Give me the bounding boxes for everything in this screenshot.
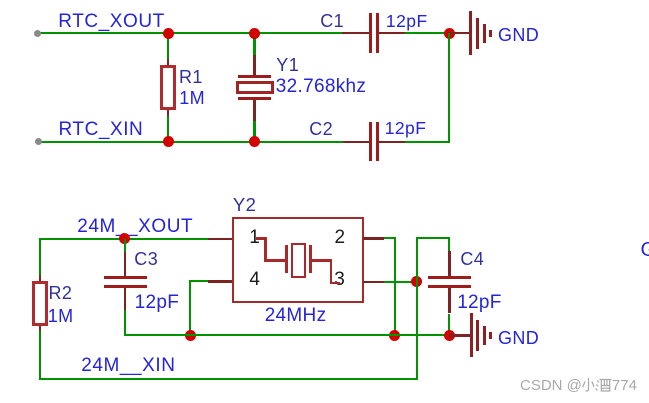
wire C4 top vertical	[448, 237, 450, 251]
label R1 designator	[179, 68, 203, 86]
wire RTC_XOUT horizontal	[37, 32, 342, 34]
wire pin2 right	[384, 237, 397, 239]
pin R1 pin 2	[167, 110, 169, 116]
wire Y1 top stub	[253, 33, 255, 55]
resistor R1	[160, 65, 176, 110]
label R2 value 1M	[48, 307, 74, 325]
label C3 designator	[134, 250, 158, 268]
wire C3 bottom stub	[124, 310, 126, 336]
pin Y2 pin 3 stub	[363, 281, 383, 284]
label R1 value 1M	[179, 89, 205, 107]
wire RTC_XIN horizontal	[37, 141, 343, 143]
pin C2 right	[379, 141, 405, 143]
pin number 2	[335, 228, 346, 247]
capacitor C1	[369, 13, 379, 53]
label R2 designator	[49, 284, 73, 302]
wire C2 right to corner	[405, 141, 450, 143]
node RTC_XIN endpoint	[35, 138, 42, 145]
pin Y2 pin 4 stub	[208, 280, 232, 283]
node junction pin3	[411, 276, 422, 287]
label C2 designator	[309, 120, 333, 138]
capacitor C4	[428, 276, 471, 288]
wire junction up	[416, 237, 418, 282]
wire R1 top stub	[167, 33, 169, 59]
pin C3 bottom	[124, 288, 126, 310]
node junction Y1 top	[249, 28, 260, 39]
node junction R1 top	[163, 28, 174, 39]
label C3 value 12pF	[135, 293, 180, 312]
right plate	[309, 245, 312, 273]
wire GND lead bottom	[449, 334, 470, 336]
crystal body	[291, 243, 306, 278]
net label 24M__XIN	[81, 356, 175, 375]
node junction C4-GND bus	[444, 330, 455, 341]
component Y2 box	[232, 217, 364, 304]
segment to pin3	[312, 259, 331, 262]
wire pin2 vertical down to bus	[394, 237, 396, 335]
wire R1 bottom stub	[167, 116, 169, 142]
wire left vertical to R2	[39, 238, 41, 275]
watermark CSDN	[520, 377, 637, 393]
wire Y1 bottom stub	[253, 121, 255, 142]
label GND partial right edge	[641, 240, 649, 260]
pin Y2 pin 2 stub	[363, 237, 383, 240]
wire vertical C1-C2 right	[448, 33, 450, 143]
pin Y1 pin 2	[253, 100, 255, 121]
pin C1 right	[379, 32, 405, 34]
pin C4 top	[448, 251, 450, 276]
node junction GND top	[444, 28, 455, 39]
segment from pin1	[256, 237, 267, 240]
power ground GND top	[469, 11, 493, 55]
label Y2 value 24MHz	[265, 306, 327, 325]
crystal Y1	[236, 75, 274, 101]
label Y1 value 32.768khz	[276, 77, 366, 96]
node junction Y1 bottom	[249, 136, 260, 147]
pin C1 left	[342, 32, 369, 34]
pin Y2 pin 1 stub	[208, 238, 232, 241]
pin number 1	[249, 228, 260, 247]
pin R2 pin 2	[39, 326, 41, 332]
pin number 4	[249, 270, 260, 289]
wire 24M_XOUT horizontal	[39, 238, 208, 240]
label C1 designator	[320, 12, 344, 30]
pin R1 pin 1	[167, 59, 169, 66]
wire junction down to XIN corner	[416, 282, 418, 380]
wire junction top horizontal	[416, 237, 451, 239]
wire pin4 vertical down	[189, 280, 191, 335]
node junction pin2-GND bus	[389, 330, 400, 341]
net label 24M__XOUT	[77, 217, 193, 236]
wire pin3 right to junction	[384, 281, 417, 283]
net label RTC_XIN	[59, 120, 144, 139]
pin C3 top	[124, 252, 126, 276]
wire pin4 to corner	[189, 280, 208, 282]
left plate	[285, 245, 288, 273]
label C2 value 12pF	[385, 120, 427, 138]
capacitor C2	[369, 122, 379, 162]
resistor R2	[32, 281, 48, 326]
crystal symbol inside Y2	[253, 237, 343, 285]
label Y1 designator	[276, 56, 299, 74]
pin C4 bottom	[448, 288, 450, 313]
power ground GND bottom	[470, 313, 494, 357]
wire C4 bottom stub	[448, 314, 450, 336]
pin C2 left	[343, 141, 369, 143]
label C4 designator	[460, 250, 484, 268]
wire GND lead top	[449, 32, 470, 34]
capacitor C3	[104, 276, 147, 288]
label C1 value 12pF	[386, 13, 428, 31]
node junction R1 bottom	[163, 136, 174, 147]
label GND bottom	[498, 329, 539, 347]
wire GND bus horizontal	[125, 334, 450, 336]
pin Y1 pin 1	[253, 55, 255, 76]
node RTC_XOUT endpoint	[34, 30, 41, 37]
net label RTC_XOUT	[58, 12, 164, 31]
node junction C3 top	[119, 233, 130, 244]
wire R2 bottom to XIN corner	[39, 331, 41, 380]
label GND top	[498, 26, 539, 44]
wire C3 top stub	[124, 239, 126, 252]
pin R2 pin 1	[39, 275, 41, 281]
pin number 3	[334, 270, 345, 289]
label C4 value 12pF	[457, 293, 502, 312]
label Y2 designator	[233, 196, 256, 215]
wire C1 to GND junction	[405, 32, 450, 34]
wire 24M_XIN horizontal	[39, 378, 418, 380]
node junction pin4-GND bus	[185, 330, 196, 341]
